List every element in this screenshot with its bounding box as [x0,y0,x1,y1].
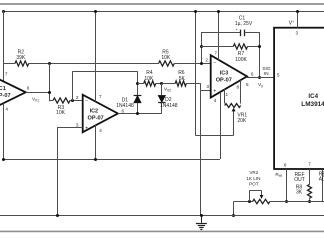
wire IC2 pin7 vertical [95,11,97,102]
pin 7 IC3 label [214,51,217,56]
node R8 pot row [308,200,311,203]
svg-text:7: 7 [214,51,217,56]
pin 1 IC3 label [226,92,229,97]
label VR1 [237,112,247,118]
arrow VR2 wiper [260,195,264,199]
border frame top [0,3,324,5]
pin 4 IC1 label [5,107,8,112]
label R2 [18,49,25,55]
label IC1 OP-07 [0,93,11,99]
label IC2 [90,108,98,114]
label R4 10K [144,76,154,82]
label C1 [239,15,246,21]
label IC3 OP-07 [216,78,232,84]
label R6 5K [179,76,186,82]
wire VR2 to ground vertical [233,201,235,216]
svg-text:IN: IN [264,71,269,77]
wire IC4 pin6 vertical [286,169,288,201]
minus IC2 [85,98,88,104]
pin 3 IC3 label [206,84,209,89]
svg-text:1: 1 [226,92,229,97]
svg-text:VR2: VR2 [249,170,258,175]
wire R6 to pin3 jog [201,84,211,91]
pin 5 IC4 label [277,73,280,78]
label R6 [178,70,185,76]
node IC2 pin3 ground [56,214,59,217]
label C1 value [235,21,253,27]
label R5 [162,49,169,55]
label D2 1N4148 [160,103,178,109]
wire R2-R5 input row [3,63,211,65]
resistor R2 [15,61,29,66]
svg-text:+: + [85,125,88,131]
svg-text:10K: 10K [56,110,66,116]
label R5 10K [161,55,171,61]
node R4 left junction [136,82,139,85]
diode D2 [158,84,165,114]
svg-text:POT: POT [249,182,259,187]
svg-text:3: 3 [206,84,209,89]
wire ground rail [0,215,324,217]
plus IC2 [85,125,88,131]
svg-text:IC4: IC4 [308,93,318,100]
wire R8 bottom [309,198,311,201]
wire IC1 output [26,92,50,94]
svg-text:10K: 10K [161,55,171,61]
svg-text:OP-07: OP-07 [0,93,11,99]
wire IC2 output [118,113,162,115]
label R3 10K [56,110,66,116]
svg-text:−: − [213,60,216,66]
node IC2 pin2 junction [71,99,74,102]
wire IC3 pin3 ground vertical [200,90,202,216]
node D1 anode output junction [136,112,139,115]
label R8 [296,184,303,190]
plus IC3 [213,88,216,94]
pin 6 IC3 label [251,71,254,76]
node IC3 output junction [258,76,261,79]
potentiometer VR1 [225,104,241,108]
wire IC2 feedback top [73,71,138,73]
pin 2 IC3 label [205,57,208,62]
wire IC4 pin8 vertical [322,169,324,201]
wire VR2 wiper loop [249,191,261,202]
wire R6 row [162,83,201,85]
wire IC3 pin8 vertical [240,80,242,103]
resistor R8 [308,184,312,198]
svg-text:3: 3 [296,31,299,36]
svg-text:3: 3 [76,122,79,127]
label VR2 1K LIN [246,176,260,181]
svg-text:+: + [213,88,216,94]
wire V+ to VR1 vertical [195,11,197,136]
resistor R7 [233,44,247,49]
diode D1 [134,95,142,113]
svg-text:4: 4 [99,128,102,133]
label SIG [262,66,271,72]
svg-text:OP-07: OP-07 [216,78,232,84]
label LM3914 [301,101,324,108]
pin 7 IC1 label [5,72,8,77]
label R7 100K [235,57,247,63]
svg-text:6: 6 [251,71,254,76]
label OUT [294,177,305,183]
label R3 [58,105,65,111]
svg-text:5: 5 [246,82,249,87]
svg-text:IC3: IC3 [220,70,228,76]
wire IC3 pin1 vertical [224,89,226,103]
pin 7 IC2 label [99,94,102,99]
resistor R4 [144,81,156,86]
wire R4 row right [156,83,162,85]
svg-text:39K: 39K [16,55,26,61]
potentiometer VR2 [253,199,270,203]
wire VR2 row [234,201,324,203]
label R7 [238,51,245,57]
label D2 [165,97,172,103]
svg-text:ADJ: ADJ [319,177,324,183]
node R4 right junction [160,82,163,85]
wire IC4 pin3 vertical [297,11,299,28]
label V01 [32,96,39,102]
wire IC3 pin7 vertical [218,11,220,60]
border frame bottom [0,230,324,232]
svg-text:LM3914: LM3914 [301,101,324,108]
svg-text:1N4148: 1N4148 [160,103,178,109]
svg-text:100K: 100K [235,57,247,63]
label V02 [164,86,171,92]
label REF ADJ [319,171,324,182]
svg-text:IC2: IC2 [90,108,98,114]
label IN [264,71,269,77]
pin 3 IC2 label [76,122,79,127]
svg-text:IC1: IC1 [0,86,6,92]
svg-text:4: 4 [5,107,8,112]
wire IC4 pin7 vertical [309,169,311,184]
label IC1 [0,86,6,92]
resistor R3 [53,98,70,103]
node V+ rail left [2,10,5,13]
wire V+ rail [3,11,324,13]
wire feedback left vertical [201,33,203,64]
svg-text:1K LIN: 1K LIN [246,176,260,181]
label VR2 [249,170,258,175]
ground symbol [196,216,207,230]
resistor R6 [175,81,186,86]
svg-text:R6: R6 [178,70,185,76]
label IC3 [220,70,228,76]
svg-text:6: 6 [27,86,30,91]
label V+ supply [289,20,294,27]
svg-text:7: 7 [5,72,8,77]
label VR2 POT [249,182,259,187]
node R7 right junction [258,45,261,48]
wire IC3 output [247,77,274,79]
op-amp IC1 [0,75,26,110]
label Rhi [275,172,282,178]
wire V- rail [3,159,220,161]
svg-text:2: 2 [205,57,208,62]
node VR2 wiper junction [248,200,251,203]
node pin6 pot row [285,200,288,203]
label VR1 20K [237,118,247,124]
svg-text:−: − [85,98,88,104]
wire feedback right vertical [259,33,261,77]
arrow VR1 wiper [232,108,236,112]
node feedback R7 left junction [200,45,203,48]
minus IC3 [213,60,216,66]
svg-text:OP-07: OP-07 [88,115,104,121]
svg-text:1N4148: 1N4148 [116,103,134,109]
node IC2 pin7 rail [94,10,97,13]
pin 7 IC4 label [308,162,311,167]
pin 6 IC2 label [122,109,125,114]
wire IC2 pin3 ground vertical [57,127,59,216]
node VR2 ground [232,214,235,217]
pin 4 IC2 label [99,128,102,133]
pin 5 IC3 label [246,82,249,87]
label R4 [146,70,153,76]
svg-text:1µ, 25V: 1µ, 25V [235,21,253,27]
label D1 [122,98,129,104]
svg-text:2: 2 [76,95,79,100]
label V0 [258,82,263,88]
wire R3 row [49,100,82,102]
svg-text:5K: 5K [179,76,186,82]
pin 2 IC2 label [76,95,79,100]
wire C1 row left [201,32,240,34]
svg-text:OUT: OUT [294,177,305,183]
node IC1 output junction [48,91,51,94]
label REF [295,172,305,178]
svg-text:7: 7 [99,94,102,99]
pin 8 IC3 label [237,85,240,90]
wire IC2 pin3 row [57,127,83,129]
label IC4 [308,93,318,100]
op-amp IC2 [83,95,118,133]
node V+ VR1 rail [194,10,197,13]
svg-text:R4: R4 [146,70,153,76]
pin 6 IC4 label [284,163,287,168]
node IC3 pin7 rail [217,10,220,13]
node R2-R5 junction [48,62,51,65]
capacitor C1 [241,30,245,37]
svg-text:5: 5 [277,73,280,78]
svg-text:4: 4 [214,98,217,103]
label R8 3K [296,190,303,196]
label 39K [16,55,26,61]
node IC1 pin4 rail [2,158,5,161]
resistor R5 [159,61,175,66]
wire IC2 feedback left vertical [72,71,74,101]
wire IC3 pin4 vertical [220,92,222,159]
wire VR1 wiper vertical [233,111,235,136]
svg-text:7: 7 [308,162,311,167]
label IC2 OP-07 [88,115,104,121]
label C1 plus [235,28,238,32]
svg-text:6: 6 [284,163,287,168]
pin 6 IC1 label [27,86,30,91]
node IC4 pin3 rail [296,10,299,13]
wire IC1 feedback vertical [49,63,51,101]
pin 3 IC4 label [296,31,299,36]
svg-text:8: 8 [237,85,240,90]
svg-text:6: 6 [122,109,125,114]
op-amp IC3 [211,55,247,97]
svg-text:3K: 3K [296,190,303,196]
svg-text:20K: 20K [237,118,247,124]
node feedback pin2 junction [200,62,203,65]
wire IC1 pin4 vertical [3,103,5,159]
bargraph driver IC4 [274,28,324,169]
wire IC2 feedback right vertical [137,71,139,95]
wire VR1 wiper to V+ horizontal [196,135,234,137]
label D1 1N4148 [116,103,134,109]
wire R4 row left [138,83,144,85]
wire IC1 input/pin7 vertical [3,11,5,82]
node ground junction [200,214,203,217]
wire IC2 pin4 vertical [95,125,97,159]
pin 4 IC3 label [214,98,217,103]
wire R7 row [201,46,260,48]
wire C1 row right [244,32,260,34]
svg-text:10K: 10K [144,76,154,82]
node IC2 pin4 rail [94,158,97,161]
